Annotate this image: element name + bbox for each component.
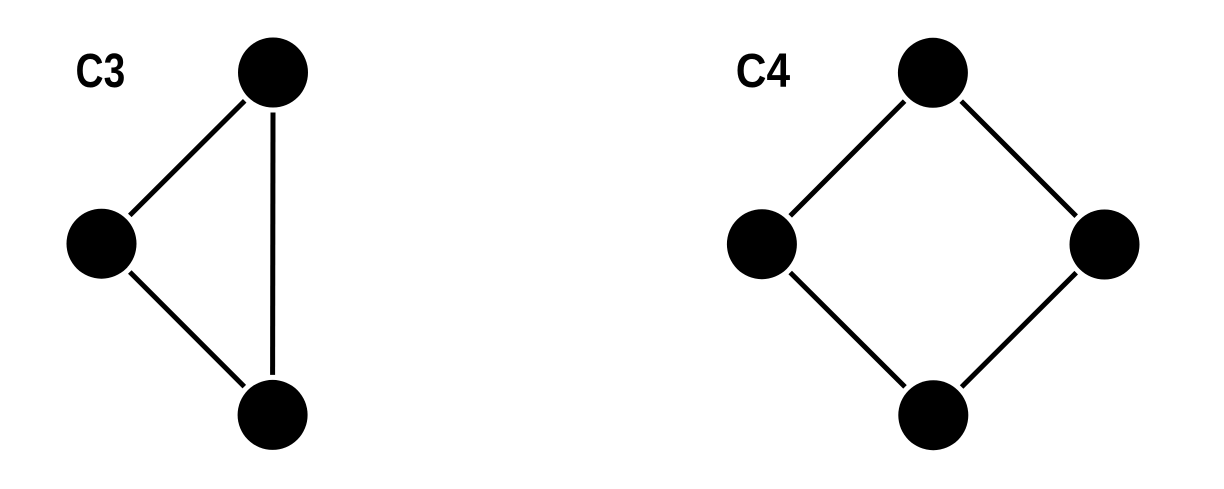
svg-text:C4: C4: [736, 44, 790, 98]
wire edge C4 top-left: [790, 101, 904, 216]
node C3 left: [67, 209, 137, 279]
wire edge C3 left-bottom: [130, 272, 245, 387]
wire edge C3 top-left: [130, 101, 245, 216]
node C3 top: [238, 38, 308, 108]
wire edge C4 top-right: [961, 101, 1076, 216]
node C3 bottom: [238, 380, 308, 450]
svg-text:C3: C3: [76, 44, 126, 98]
node C4 right: [1070, 210, 1140, 280]
node C4 bottom: [898, 380, 968, 450]
wire edge C4 right-bottom: [962, 273, 1077, 387]
node C4 left: [727, 209, 797, 279]
wire edge C3 top-bottom: [270, 113, 275, 375]
wire edge C4 left-bottom: [790, 273, 905, 387]
node C4 top: [898, 38, 968, 108]
